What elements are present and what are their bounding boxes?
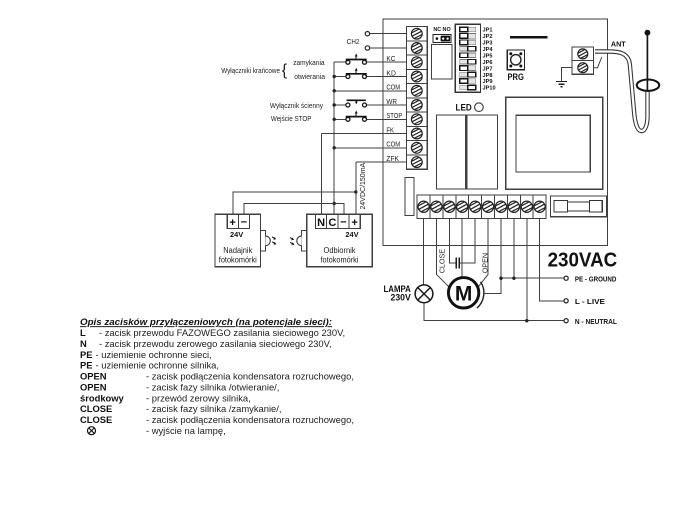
DIP switch JP1 xyxy=(460,27,476,32)
run capacitor C2 xyxy=(455,258,457,269)
svg-text:- przewód zerowy silnika,: - przewód zerowy silnika, xyxy=(146,392,251,403)
svg-text:Nadajnik: Nadajnik xyxy=(223,246,252,255)
svg-text:KC: KC xyxy=(386,54,395,63)
svg-text:24V: 24V xyxy=(230,230,243,239)
wire ZFK 24VDC supply xyxy=(355,162,357,214)
svg-text:otwierania: otwierania xyxy=(294,74,325,81)
DIP switch JP8 xyxy=(460,72,476,77)
svg-text:NO: NO xyxy=(443,27,451,33)
transmitter beam arrows xyxy=(272,237,277,245)
transformer T1 core xyxy=(516,115,590,172)
wire capacitor right xyxy=(460,219,475,264)
svg-text:−: − xyxy=(241,216,247,228)
svg-text:JP2: JP2 xyxy=(483,34,493,40)
svg-text:JP7: JP7 xyxy=(483,66,493,72)
silkscreen bar xyxy=(510,36,548,39)
relay K2 xyxy=(437,115,466,189)
wire L live xyxy=(540,219,564,301)
svg-text:Odbiornik: Odbiornik xyxy=(324,246,356,255)
antenna rod xyxy=(646,34,648,91)
wire STOP row xyxy=(334,118,346,120)
svg-text:LED: LED xyxy=(456,102,472,113)
svg-text:JP9: JP9 xyxy=(483,79,493,85)
svg-text:fotokomórki: fotokomórki xyxy=(321,255,359,264)
wall switch WR (NC contact) xyxy=(346,103,350,107)
wire COM row xyxy=(334,90,406,92)
svg-text:- wyjście na lampę,: - wyjście na lampę, xyxy=(146,425,226,436)
jumper block J1 xyxy=(433,35,451,43)
svg-text:STOP: STOP xyxy=(386,111,402,120)
svg-text:JP8: JP8 xyxy=(483,73,493,79)
DIP switch JP3 xyxy=(460,40,476,45)
svg-text:+: + xyxy=(229,217,235,229)
lamp symbol LAMPA 230V xyxy=(415,285,433,303)
receiver beam arrows xyxy=(290,238,295,245)
transmitter lens xyxy=(260,231,265,251)
controller board outline xyxy=(383,19,608,245)
svg-text:Opis zacisków przyłączeniowych: Opis zacisków przyłączeniowych (na poten… xyxy=(80,316,332,327)
svg-text:ANT: ANT xyxy=(611,40,626,49)
svg-text:N: N xyxy=(317,217,325,229)
node N-NEUTRAL xyxy=(564,319,568,323)
svg-text:{: { xyxy=(282,62,288,79)
power terminal strip xyxy=(417,195,546,219)
transformer T1 outer xyxy=(506,97,603,189)
DIP switch block JP1-JP10 xyxy=(455,24,480,92)
wire lamp to neutral xyxy=(424,303,564,321)
DIP switch JP6 xyxy=(460,59,476,64)
wire transmitter + to 24VDC xyxy=(233,192,356,214)
wire CH2 terminal 1 xyxy=(370,33,407,35)
DIP switch JP7 xyxy=(460,66,476,71)
wire motor run to PE column xyxy=(484,219,501,294)
wire CH2 terminal 2 xyxy=(370,47,407,49)
wire FK to photocell N xyxy=(321,134,323,215)
svg-text:−: − xyxy=(340,216,346,228)
svg-text:- uziemienie ochronne silnika,: - uziemienie ochronne silnika, xyxy=(96,360,220,371)
svg-text:L: L xyxy=(80,327,86,338)
svg-text:230VAC: 230VAC xyxy=(548,248,618,271)
svg-text:PRG: PRG xyxy=(508,72,524,83)
svg-text:ZFK: ZFK xyxy=(386,154,399,163)
DIP switch JP4 xyxy=(460,47,476,52)
fuse F1 xyxy=(554,200,567,212)
svg-text:- zacisk podłączenia kondensat: - zacisk podłączenia kondensatora rozruc… xyxy=(146,414,354,425)
wire PE silnika xyxy=(513,219,515,279)
svg-text:JP6: JP6 xyxy=(483,60,493,66)
svg-text:N: N xyxy=(80,338,87,349)
antenna loop xyxy=(637,80,659,91)
relay K1 xyxy=(432,45,453,80)
photocell receiver (Odbiornik) box xyxy=(307,214,373,267)
wire FK row xyxy=(322,133,407,135)
svg-text:środkowy: środkowy xyxy=(80,392,125,403)
svg-text:COM: COM xyxy=(386,140,400,149)
ground symbol xyxy=(556,81,567,83)
svg-text:PE: PE xyxy=(80,349,93,360)
wire CLOSE (capacitor) xyxy=(435,219,437,275)
svg-text:- zacisk przewodu FAZOWEGO zas: - zacisk przewodu FAZOWEGO zasilania sie… xyxy=(99,327,345,338)
wire lamp feed xyxy=(423,219,425,286)
svg-text:+: + xyxy=(351,217,357,229)
svg-text:CLOSE: CLOSE xyxy=(437,249,446,274)
DIP switch JP9 xyxy=(460,79,476,84)
wire WR row xyxy=(334,104,346,106)
svg-text:CLOSE: CLOSE xyxy=(80,403,112,414)
push-button KC closing limit switch xyxy=(346,60,350,64)
wire OPEN xyxy=(487,219,489,275)
svg-text:- zacisk fazy silnika /otwiera: - zacisk fazy silnika /otwieranie/, xyxy=(146,381,279,392)
svg-text:OPEN: OPEN xyxy=(481,253,490,273)
svg-text:JP1: JP1 xyxy=(483,28,493,34)
svg-text:NC: NC xyxy=(433,27,441,33)
svg-text:WR: WR xyxy=(386,97,397,106)
wire capacitor left xyxy=(449,219,455,264)
relay K3 xyxy=(467,115,498,189)
wire KD row xyxy=(334,76,346,78)
wire to ground xyxy=(562,68,573,82)
svg-text:24V: 24V xyxy=(345,230,358,239)
DIP switch JP5 xyxy=(460,53,476,58)
svg-text:- zacisk przewodu zerowego zas: - zacisk przewodu zerowego zasilania sie… xyxy=(99,338,332,349)
motor auxiliary arc xyxy=(477,282,484,308)
push-button STOP input xyxy=(346,117,350,121)
svg-text:- uziemienie ochronne sieci,: - uziemienie ochronne sieci, xyxy=(96,349,212,360)
wire PE ground line xyxy=(501,277,564,279)
svg-text:24VDC/150mA: 24VDC/150mA xyxy=(360,162,367,209)
svg-text:OPEN: OPEN xyxy=(80,381,107,392)
junction dots on COM bus xyxy=(333,75,336,78)
svg-text:zamykania: zamykania xyxy=(293,60,324,67)
svg-text:OPEN: OPEN xyxy=(80,371,107,382)
svg-text:L - LIVE: L - LIVE xyxy=(575,297,605,306)
svg-text:JP10: JP10 xyxy=(483,86,496,92)
wire COM row 2 xyxy=(334,147,406,149)
svg-text:N - NEUTRAL: N - NEUTRAL xyxy=(575,317,618,326)
wire N neutral drop xyxy=(526,219,528,321)
photocell transmitter (Nadajnik) box xyxy=(215,214,260,267)
lamp output symbol xyxy=(88,427,96,435)
svg-text:Wyłączniki krańcowe: Wyłączniki krańcowe xyxy=(221,68,280,75)
svg-text:Wyłącznik ścienny: Wyłącznik ścienny xyxy=(270,103,324,110)
svg-text:CLOSE: CLOSE xyxy=(80,414,112,425)
fuse F1 holder xyxy=(551,196,607,217)
wire ZFK row xyxy=(356,161,407,163)
svg-text:M: M xyxy=(455,282,473,305)
push-button KD opening limit switch xyxy=(346,75,350,79)
coax cable stub from lower screw xyxy=(594,57,602,68)
DIP switch JP2 xyxy=(460,34,476,39)
wire motor common xyxy=(461,219,463,278)
DIP switch JP10 xyxy=(460,85,476,90)
svg-text:Wejście STOP: Wejście STOP xyxy=(271,116,312,123)
push-button PRG xyxy=(507,50,524,70)
svg-text:CH2: CH2 xyxy=(347,37,360,46)
node L-LIVE xyxy=(564,299,568,303)
svg-text:JP4: JP4 xyxy=(483,47,494,53)
svg-text:230V: 230V xyxy=(391,293,411,303)
svg-text:- zacisk fazy silnika /zamykan: - zacisk fazy silnika /zamykanie/, xyxy=(146,403,281,414)
svg-text:JP3: JP3 xyxy=(483,41,493,47)
svg-text:C: C xyxy=(328,217,336,229)
svg-text:JP5: JP5 xyxy=(483,54,493,60)
wire COM bus (left vertical) xyxy=(333,62,335,214)
node PE-GROUND xyxy=(564,276,568,280)
svg-text:FK: FK xyxy=(386,125,394,134)
coax cable to antenna xyxy=(595,52,648,132)
svg-text:COM: COM xyxy=(386,83,400,92)
receiver lens xyxy=(302,231,307,251)
wire KC row xyxy=(334,61,346,63)
LED indicator xyxy=(475,103,484,112)
antenna terminal block xyxy=(572,47,593,74)
capacitor C1 (board) xyxy=(405,177,414,215)
wire transmitter - to receiver - xyxy=(244,204,344,215)
terminal strip (control inputs) xyxy=(406,27,427,170)
svg-text:- zacisk podłączenia kondensat: - zacisk podłączenia kondensatora rozruc… xyxy=(146,371,354,382)
svg-text:fotokomórki: fotokomórki xyxy=(219,255,257,264)
svg-text:PE - GROUND: PE - GROUND xyxy=(575,274,617,283)
motor M1 xyxy=(448,278,478,308)
svg-text:KD: KD xyxy=(386,68,396,77)
svg-text:PE: PE xyxy=(80,360,93,371)
